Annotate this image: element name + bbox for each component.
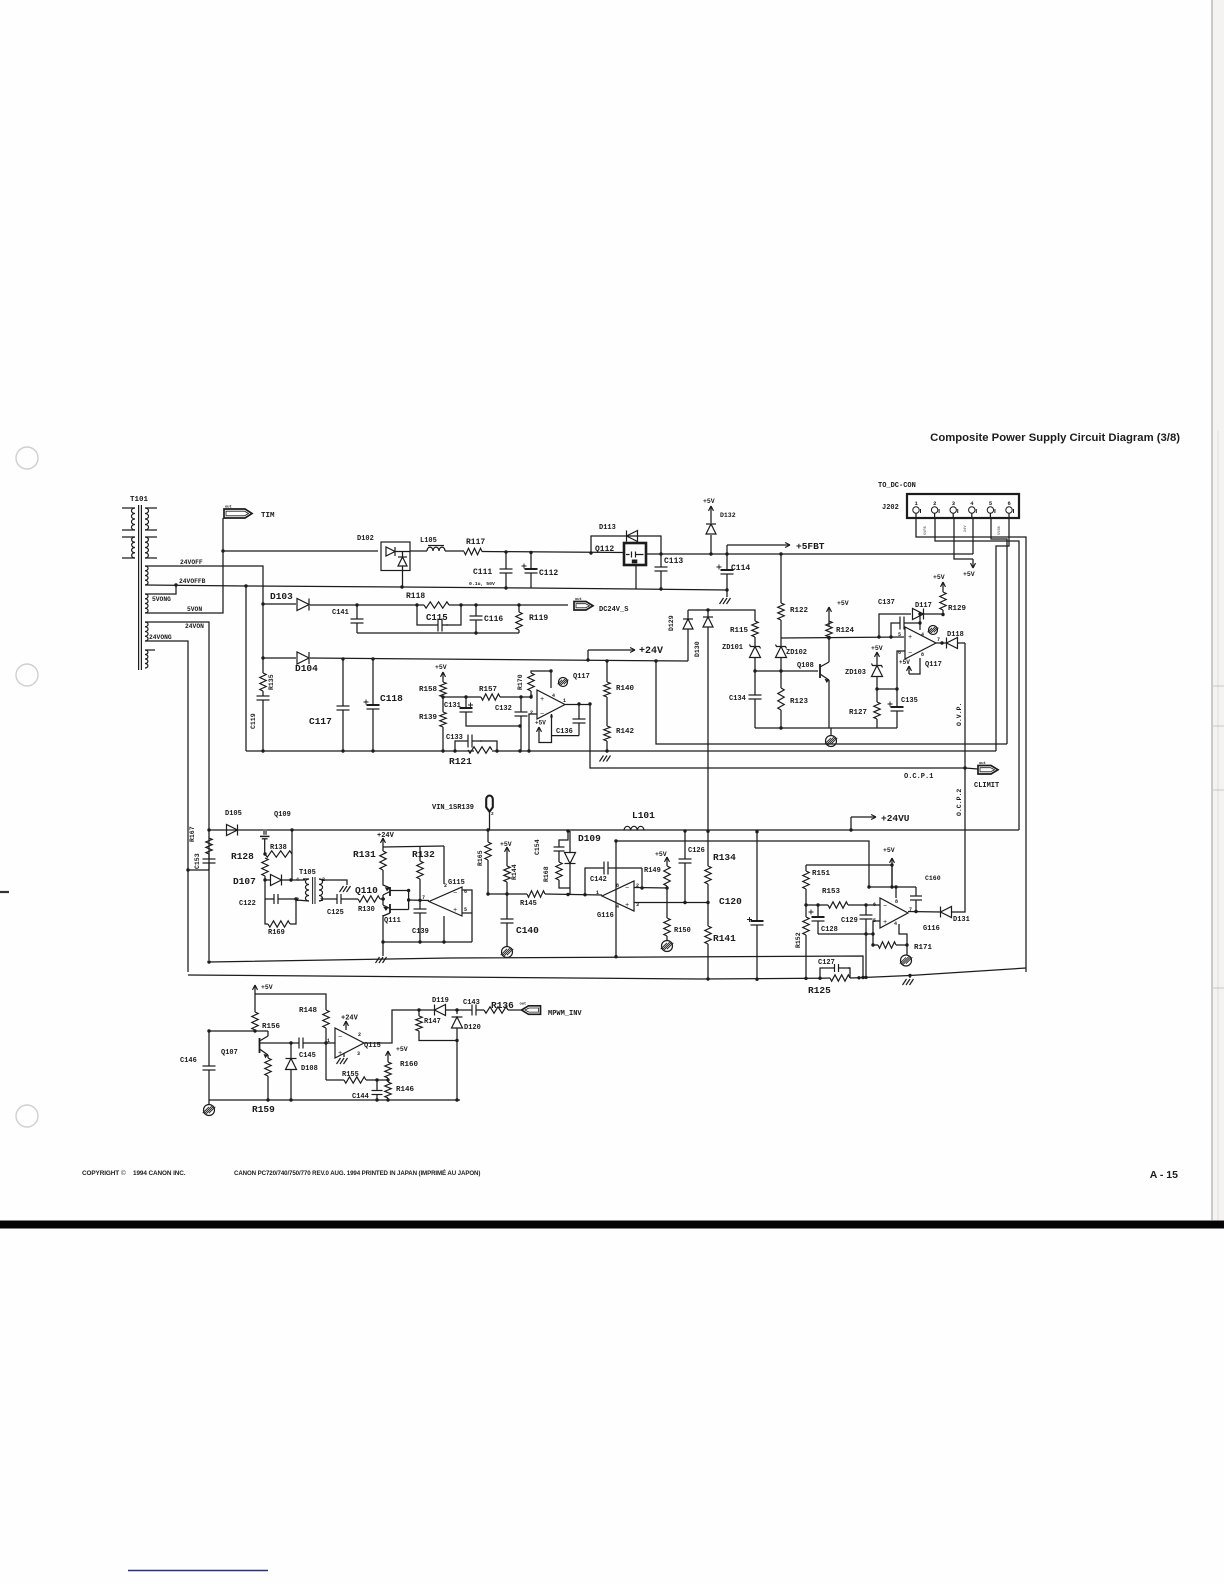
wire 24VOFF feed down to D104 node bbox=[261, 656, 264, 659]
wire D102 bottom to 24VOFFB rail bbox=[402, 566, 404, 587]
svg-text:D132: D132 bbox=[720, 512, 736, 519]
node C126 bottom bbox=[683, 901, 686, 904]
svg-text:C146: C146 bbox=[180, 1057, 197, 1065]
svg-text:D102: D102 bbox=[357, 535, 374, 543]
svg-text:+5V: +5V bbox=[837, 600, 849, 607]
wire Q107 collector bbox=[267, 1031, 269, 1036]
node R159 bottom bbox=[266, 1098, 269, 1101]
svg-text:5VSB: 5VSB bbox=[998, 526, 1002, 535]
wire C154-D109 branch top bbox=[559, 831, 568, 843]
svg-text:+: + bbox=[338, 1050, 342, 1058]
wire collector bus bbox=[408, 891, 410, 910]
wire 24VON vertical bbox=[145, 622, 209, 960]
wire +24V drop to J202 loop bbox=[656, 661, 1007, 744]
svg-text:R127: R127 bbox=[849, 709, 867, 717]
node D113 tap bbox=[589, 551, 592, 554]
node +5V feed junction bbox=[890, 885, 893, 888]
wire ZD101 to ZD102 junction bbox=[755, 670, 781, 672]
svg-text:R132: R132 bbox=[412, 849, 435, 860]
ground circle below rail bbox=[826, 736, 837, 747]
wire R147 bottom jog bbox=[419, 1031, 457, 1041]
svg-text:C142: C142 bbox=[590, 876, 607, 884]
wire D120 to rail bbox=[456, 1041, 458, 1101]
+5V feed R144 bbox=[506, 847, 508, 856]
svg-text:C125: C125 bbox=[327, 909, 344, 917]
ground rail of protection block bbox=[755, 727, 897, 729]
wire 24VOFF to vertical feed bbox=[145, 566, 263, 658]
node OCP1-OVP junction bbox=[963, 766, 966, 769]
node C139 bottom bbox=[418, 940, 421, 943]
node D117-R129 bbox=[941, 613, 944, 616]
svg-text:6: 6 bbox=[873, 902, 876, 908]
wire J202 pin4 to +5FBT bbox=[972, 518, 974, 554]
wire Q111 emitter down bbox=[382, 915, 384, 942]
node R146 bottom bbox=[386, 1098, 389, 1101]
wire output to op-amp G115 bbox=[409, 899, 429, 902]
svg-text:R144: R144 bbox=[511, 864, 518, 880]
svg-text:R170: R170 bbox=[517, 674, 524, 690]
node 24VOFFB drop x246 bbox=[244, 584, 247, 587]
node R156 bottom bbox=[253, 1029, 256, 1032]
node 24VON main-line tap bbox=[207, 828, 210, 831]
wire C128-C129 bottom line bbox=[818, 933, 873, 935]
ground marker on rail bbox=[909, 975, 911, 978]
node C114 bottom bbox=[725, 588, 728, 591]
wire error amp output bbox=[565, 704, 590, 706]
node R123 rail bbox=[779, 726, 782, 729]
svg-text:−: − bbox=[453, 890, 457, 898]
wire base line to op-amp bbox=[326, 1042, 335, 1044]
svg-text:C112: C112 bbox=[539, 569, 558, 578]
node ZD102 bottom bbox=[779, 669, 782, 672]
svg-text:7: 7 bbox=[937, 637, 940, 643]
svg-text:Q111: Q111 bbox=[384, 917, 401, 925]
svg-text:R169: R169 bbox=[268, 929, 285, 937]
wire D107 to C122 node bbox=[264, 880, 266, 899]
svg-text:+5V: +5V bbox=[933, 574, 945, 581]
node C120 top bbox=[755, 830, 758, 833]
node R149 minus junction bbox=[665, 886, 668, 889]
svg-text:C115: C115 bbox=[426, 613, 448, 623]
svg-text:C126: C126 bbox=[688, 847, 705, 855]
node D130 top bbox=[706, 608, 709, 611]
svg-text:Q110: Q110 bbox=[355, 885, 378, 896]
node R165 bottom bbox=[486, 892, 489, 895]
node rail2 drop bbox=[861, 976, 864, 979]
svg-text:out: out bbox=[520, 1002, 527, 1006]
svg-text:R140: R140 bbox=[616, 685, 635, 693]
node C117 top bbox=[341, 657, 344, 660]
op-amp Q117 error amp bbox=[537, 690, 565, 719]
bottom blue line bbox=[128, 1570, 268, 1572]
ground circle below R150 bbox=[662, 941, 673, 952]
connector CLIMIT out-arrow bbox=[965, 768, 978, 769]
svg-text:C117: C117 bbox=[309, 716, 332, 727]
svg-text:7: 7 bbox=[422, 895, 425, 901]
wire C131 to C132 column bbox=[466, 716, 520, 726]
+5V feed R156 bbox=[254, 985, 256, 994]
node C145 to R148 column bbox=[324, 1041, 327, 1044]
svg-text:C114: C114 bbox=[731, 564, 750, 573]
op-amp Q117 comparator bbox=[905, 627, 936, 659]
svg-text:−: − bbox=[540, 711, 544, 719]
wire D117 branch bbox=[879, 614, 911, 637]
wire comparator input line bbox=[781, 637, 904, 638]
svg-text:C135: C135 bbox=[901, 697, 918, 705]
node R157 opamp input bbox=[519, 695, 522, 698]
svg-text:R134: R134 bbox=[713, 852, 736, 863]
node C137 to pin4 riser bbox=[918, 621, 921, 624]
svg-text:Q109: Q109 bbox=[274, 811, 291, 819]
node C133 left bbox=[453, 749, 456, 752]
svg-text:R141: R141 bbox=[713, 933, 736, 944]
svg-text:8: 8 bbox=[921, 652, 924, 658]
node C141 tap bbox=[355, 603, 358, 606]
svg-text:R131: R131 bbox=[353, 849, 376, 860]
node R118 right bbox=[459, 603, 462, 606]
wire pin4 riser bbox=[919, 614, 921, 630]
node C144 bottom bbox=[375, 1098, 378, 1101]
wire Q112 drain to +5FBT bbox=[646, 553, 973, 555]
svg-text:CLIMIT: CLIMIT bbox=[974, 782, 999, 790]
svg-text:C120: C120 bbox=[719, 896, 742, 907]
wire Q109 gate down bbox=[264, 839, 266, 854]
ground circle below G116 bbox=[901, 955, 912, 966]
svg-text:D103: D103 bbox=[270, 591, 293, 602]
wire +5V line to R148 bbox=[255, 994, 326, 1010]
svg-text:Composite Power Supply Circuit: Composite Power Supply Circuit Diagram (… bbox=[930, 432, 1180, 444]
node C132 bottom bbox=[518, 749, 521, 752]
node T105 pin4 node bbox=[289, 878, 292, 881]
wire R131 to Q110 emitter bbox=[383, 870, 390, 888]
svg-text:ZD103: ZD103 bbox=[845, 669, 866, 677]
node R167-C153 to 24VONG bbox=[186, 868, 189, 871]
node R171 right bbox=[905, 943, 908, 946]
svg-text:R128: R128 bbox=[231, 851, 254, 862]
bottom black bar bbox=[0, 1221, 1224, 1229]
node 24VOFF-D103 tap bbox=[261, 602, 264, 605]
wire op-amp ground column bbox=[899, 924, 907, 955]
node D109 bottom bbox=[566, 893, 569, 896]
+5V feed R149 bbox=[666, 857, 668, 866]
wire Q117 minus input bbox=[897, 651, 905, 689]
node R118 left bbox=[415, 603, 418, 606]
svg-text:+5V: +5V bbox=[883, 847, 895, 854]
svg-text:R138: R138 bbox=[270, 844, 287, 852]
node TIM tap bbox=[221, 549, 224, 552]
op-amp Q117 power stub +5V bbox=[909, 658, 920, 674]
svg-text:C127: C127 bbox=[818, 959, 835, 967]
svg-text:L105: L105 bbox=[420, 537, 437, 545]
node C140 area bbox=[207, 960, 210, 963]
diode D132 bbox=[710, 535, 712, 554]
svg-text:−: − bbox=[338, 1034, 342, 1042]
svg-text:2: 2 bbox=[933, 500, 936, 507]
svg-text:Q107: Q107 bbox=[221, 1049, 238, 1057]
svg-text:3: 3 bbox=[357, 1051, 360, 1057]
svg-text:©: © bbox=[121, 1169, 126, 1177]
transformer T101 primary winding lower bbox=[132, 537, 135, 558]
node D117 drop bbox=[877, 635, 880, 638]
wire OCP2 vertical bbox=[952, 768, 965, 912]
wire C141-C116-R119 bottom return bbox=[357, 632, 519, 634]
svg-text:R136: R136 bbox=[491, 1000, 514, 1011]
svg-text:+5V: +5V bbox=[963, 571, 975, 578]
connector MPWM_INV out-arrow bbox=[522, 1006, 541, 1015]
node OCP1 drop bbox=[588, 702, 591, 705]
node C133 right bbox=[495, 749, 498, 752]
node Q109 main tap bbox=[290, 828, 293, 831]
wire R123 to ground rail bbox=[780, 710, 782, 728]
wire 5VONG jog bbox=[145, 585, 176, 594]
node D120 rail bbox=[455, 1098, 458, 1101]
wire collector line bbox=[209, 1030, 268, 1032]
wire Q108 emitter to rail bbox=[828, 680, 830, 728]
wire G116 top power stub bbox=[895, 887, 897, 898]
transformer T101 secondary winding 5VON bbox=[145, 594, 148, 613]
wire Q110-Q111 base steps bbox=[382, 895, 384, 905]
svg-text:R145: R145 bbox=[520, 900, 537, 908]
node C116 tap bbox=[474, 603, 477, 606]
node +24V drop x656 bbox=[654, 659, 657, 662]
svg-text:R159: R159 bbox=[252, 1104, 275, 1115]
ground circle below C146 bbox=[204, 1105, 215, 1116]
node error amp output bbox=[577, 702, 580, 705]
net tag +24V bbox=[587, 650, 589, 660]
wire R122 top feed bbox=[780, 554, 782, 603]
svg-text:out: out bbox=[979, 762, 986, 766]
svg-text:2: 2 bbox=[530, 710, 533, 716]
node R140 top bbox=[605, 659, 608, 662]
error amp power stub +5V bbox=[539, 714, 552, 743]
test point circle at Q117 bbox=[929, 626, 938, 635]
svg-text:R150: R150 bbox=[674, 927, 691, 935]
wire C129 column to rail bbox=[865, 934, 867, 977]
svg-text:D105: D105 bbox=[225, 810, 242, 818]
ground below Q111 bbox=[382, 942, 384, 956]
node R170 pin4 link bbox=[549, 669, 552, 672]
svg-text:R165: R165 bbox=[477, 850, 484, 866]
transformer T101 core bbox=[138, 505, 140, 670]
wire feedback column bbox=[325, 1043, 327, 1080]
node C117 bottom bbox=[341, 749, 344, 752]
ground below Q115 bbox=[343, 1053, 345, 1057]
node R155-C144 bbox=[375, 1078, 378, 1081]
node R165 top bbox=[486, 828, 489, 831]
svg-text:D118: D118 bbox=[947, 631, 964, 639]
node C131 top bbox=[464, 695, 467, 698]
svg-text:D119: D119 bbox=[432, 997, 449, 1005]
svg-text:MPWM_INV: MPWM_INV bbox=[548, 1010, 582, 1018]
svg-text:5: 5 bbox=[464, 907, 467, 913]
+5V feed R158 bbox=[442, 672, 444, 682]
wire 24VONG vertical bbox=[145, 641, 188, 972]
wire Q115 output bbox=[364, 1010, 420, 1043]
svg-text:C160: C160 bbox=[925, 875, 941, 882]
net tag +24V at R131 bbox=[382, 838, 384, 847]
node block left bottom bbox=[614, 955, 617, 958]
svg-text:J202: J202 bbox=[882, 504, 899, 512]
svg-text:R122: R122 bbox=[790, 607, 809, 615]
node block feed left bbox=[614, 839, 617, 842]
node C131-C132 junction bbox=[518, 724, 521, 727]
wire D103 to R118 row bbox=[310, 604, 417, 606]
wire C136 bottom loop bbox=[552, 735, 580, 737]
wire T105 pin2 to ground bbox=[324, 880, 347, 885]
node R171 line left bbox=[871, 943, 874, 946]
svg-text:+5V: +5V bbox=[655, 851, 667, 858]
node R139 bottom bbox=[441, 749, 444, 752]
svg-text:1: 1 bbox=[563, 698, 566, 704]
wire error amp minus input down bbox=[529, 714, 537, 751]
svg-text:−: − bbox=[908, 650, 912, 658]
+5V arrow current limit block bbox=[891, 858, 893, 880]
svg-text:D108: D108 bbox=[301, 1065, 318, 1073]
svg-text:D130: D130 bbox=[694, 641, 701, 657]
svg-text:+5V: +5V bbox=[435, 664, 447, 671]
wire 5VON to TIM bbox=[145, 518, 223, 613]
svg-text:R157: R157 bbox=[479, 686, 497, 694]
svg-text:Q117: Q117 bbox=[573, 673, 590, 681]
node D132 tap bbox=[709, 552, 712, 555]
svg-text:1: 1 bbox=[327, 1038, 330, 1044]
wire R157 input line bbox=[443, 696, 481, 698]
svg-text:+5V: +5V bbox=[261, 984, 273, 991]
wire 24VOFFB drop to bottom rail bbox=[245, 586, 247, 751]
wire Q107 emitter / resistor R159 bbox=[267, 1055, 269, 1058]
svg-text:R152: R152 bbox=[795, 932, 802, 948]
svg-text:R121: R121 bbox=[449, 756, 472, 767]
svg-text:C113: C113 bbox=[664, 557, 683, 566]
svg-text:+5V: +5V bbox=[396, 1046, 408, 1053]
wire R117 to Q112 bbox=[482, 552, 624, 553]
net tag +24VU bbox=[849, 828, 852, 831]
svg-text:4: 4 bbox=[921, 632, 924, 638]
svg-text:+: + bbox=[540, 696, 544, 704]
node R160-R146 bbox=[386, 1078, 389, 1081]
svg-text:R129: R129 bbox=[948, 605, 967, 613]
wire Q108 base bbox=[781, 670, 818, 672]
svg-text:Q108: Q108 bbox=[797, 662, 814, 670]
svg-text:Q117: Q117 bbox=[925, 661, 942, 669]
svg-text:TO_DC-CON: TO_DC-CON bbox=[878, 482, 916, 490]
wire Q108 collector bbox=[828, 638, 830, 662]
svg-text:C129: C129 bbox=[841, 917, 858, 925]
node +24V tag riser bbox=[586, 658, 589, 661]
svg-text:R149: R149 bbox=[644, 867, 661, 875]
svg-text:VIN_1SR139: VIN_1SR139 bbox=[432, 804, 474, 812]
node C114 top bbox=[725, 552, 728, 555]
svg-text:+24V: +24V bbox=[639, 646, 663, 657]
node C137 drop bbox=[889, 635, 892, 638]
svg-text:R130: R130 bbox=[358, 906, 375, 914]
node R134 top bbox=[706, 830, 709, 833]
transformer T101 aux winding lower right bbox=[145, 537, 148, 558]
svg-text:C153: C153 bbox=[194, 853, 201, 869]
svg-text:D104: D104 bbox=[295, 663, 318, 674]
svg-text:out: out bbox=[575, 598, 582, 602]
svg-text:R148: R148 bbox=[299, 1007, 318, 1015]
test point circle at error amp bbox=[559, 678, 568, 687]
svg-text:D113: D113 bbox=[599, 524, 616, 532]
svg-text:4: 4 bbox=[296, 877, 299, 883]
ground circle below C140 bbox=[502, 947, 513, 958]
node R147 top bbox=[417, 1008, 420, 1011]
ground marker below rail x607 bbox=[605, 749, 608, 752]
svg-text:D129: D129 bbox=[668, 615, 675, 631]
node C142 riser bbox=[583, 893, 586, 896]
svg-text:C141: C141 bbox=[332, 609, 349, 617]
svg-text:C134: C134 bbox=[729, 695, 746, 703]
wire R132 down to C139 node bbox=[419, 879, 421, 900]
wire G116 minus line bbox=[634, 887, 669, 890]
svg-text:+24VU: +24VU bbox=[881, 813, 910, 824]
wire J202 pin3 +5V stub bbox=[954, 518, 973, 559]
ground below C114 bbox=[726, 590, 728, 597]
svg-text:−: − bbox=[883, 903, 887, 911]
node R132-C139 output tap bbox=[418, 899, 421, 902]
node C113 bottom bbox=[659, 587, 662, 590]
svg-text:5VONG: 5VONG bbox=[152, 596, 171, 603]
wire D102 to L105 bbox=[410, 550, 427, 552]
svg-text:R142: R142 bbox=[616, 728, 635, 736]
svg-text:R135: R135 bbox=[268, 674, 275, 690]
wire plus input column bbox=[873, 921, 880, 945]
wire OCP1 from error amp bbox=[590, 704, 965, 768]
svg-text:+5FBT: +5FBT bbox=[796, 541, 825, 552]
wire J202 pin5 to +24V loop bbox=[991, 518, 1007, 744]
svg-text:D120: D120 bbox=[464, 1024, 481, 1032]
node C128 top bbox=[816, 903, 819, 906]
wire G116 plus line bbox=[634, 902, 708, 904]
node push-pull output bbox=[407, 898, 410, 901]
node ZD101 bottom bbox=[753, 669, 756, 672]
node C111 bottom bbox=[504, 586, 507, 589]
svg-text:A - 15: A - 15 bbox=[1150, 1169, 1178, 1181]
svg-text:4: 4 bbox=[894, 921, 897, 927]
node 24VON col tap bbox=[207, 1029, 210, 1032]
svg-text:R156: R156 bbox=[262, 1023, 281, 1031]
svg-text:C128: C128 bbox=[821, 926, 838, 934]
wire OVP vertical bbox=[964, 643, 966, 768]
transformer T101 secondary winding 24VOFF bbox=[145, 566, 148, 585]
wire C153 to 24VONG line bbox=[188, 869, 209, 871]
svg-text:5VON: 5VON bbox=[187, 606, 202, 613]
svg-text:+5V: +5V bbox=[535, 720, 546, 727]
node R122 top on +5FBT line bbox=[779, 552, 782, 555]
svg-text:R158: R158 bbox=[419, 686, 438, 694]
svg-text:O.C.P.2: O.C.P.2 bbox=[956, 789, 963, 816]
node R152 bottom bbox=[804, 977, 807, 980]
svg-text:R117: R117 bbox=[466, 538, 485, 547]
connector DC24V_S out-arrow bbox=[574, 602, 593, 611]
node Q117 output bbox=[940, 641, 943, 644]
svg-text:5: 5 bbox=[898, 632, 901, 638]
node C127 right bbox=[857, 976, 860, 979]
svg-text:TIM: TIM bbox=[261, 512, 275, 520]
net tag +24V at Q115 bbox=[345, 1021, 347, 1030]
svg-text:1: 1 bbox=[596, 890, 599, 896]
svg-text:L101: L101 bbox=[632, 810, 655, 821]
svg-text:R153: R153 bbox=[822, 888, 841, 896]
wire R157 to op-amp bbox=[500, 696, 531, 698]
node D108 bottom bbox=[289, 1098, 292, 1101]
node Q110 collector bbox=[407, 889, 410, 892]
node G115 return-444 bbox=[442, 940, 445, 943]
wire J202 pin6 to top rail bbox=[996, 518, 1009, 751]
svg-text:+: + bbox=[625, 902, 629, 910]
wire D113 branch bbox=[591, 536, 661, 554]
